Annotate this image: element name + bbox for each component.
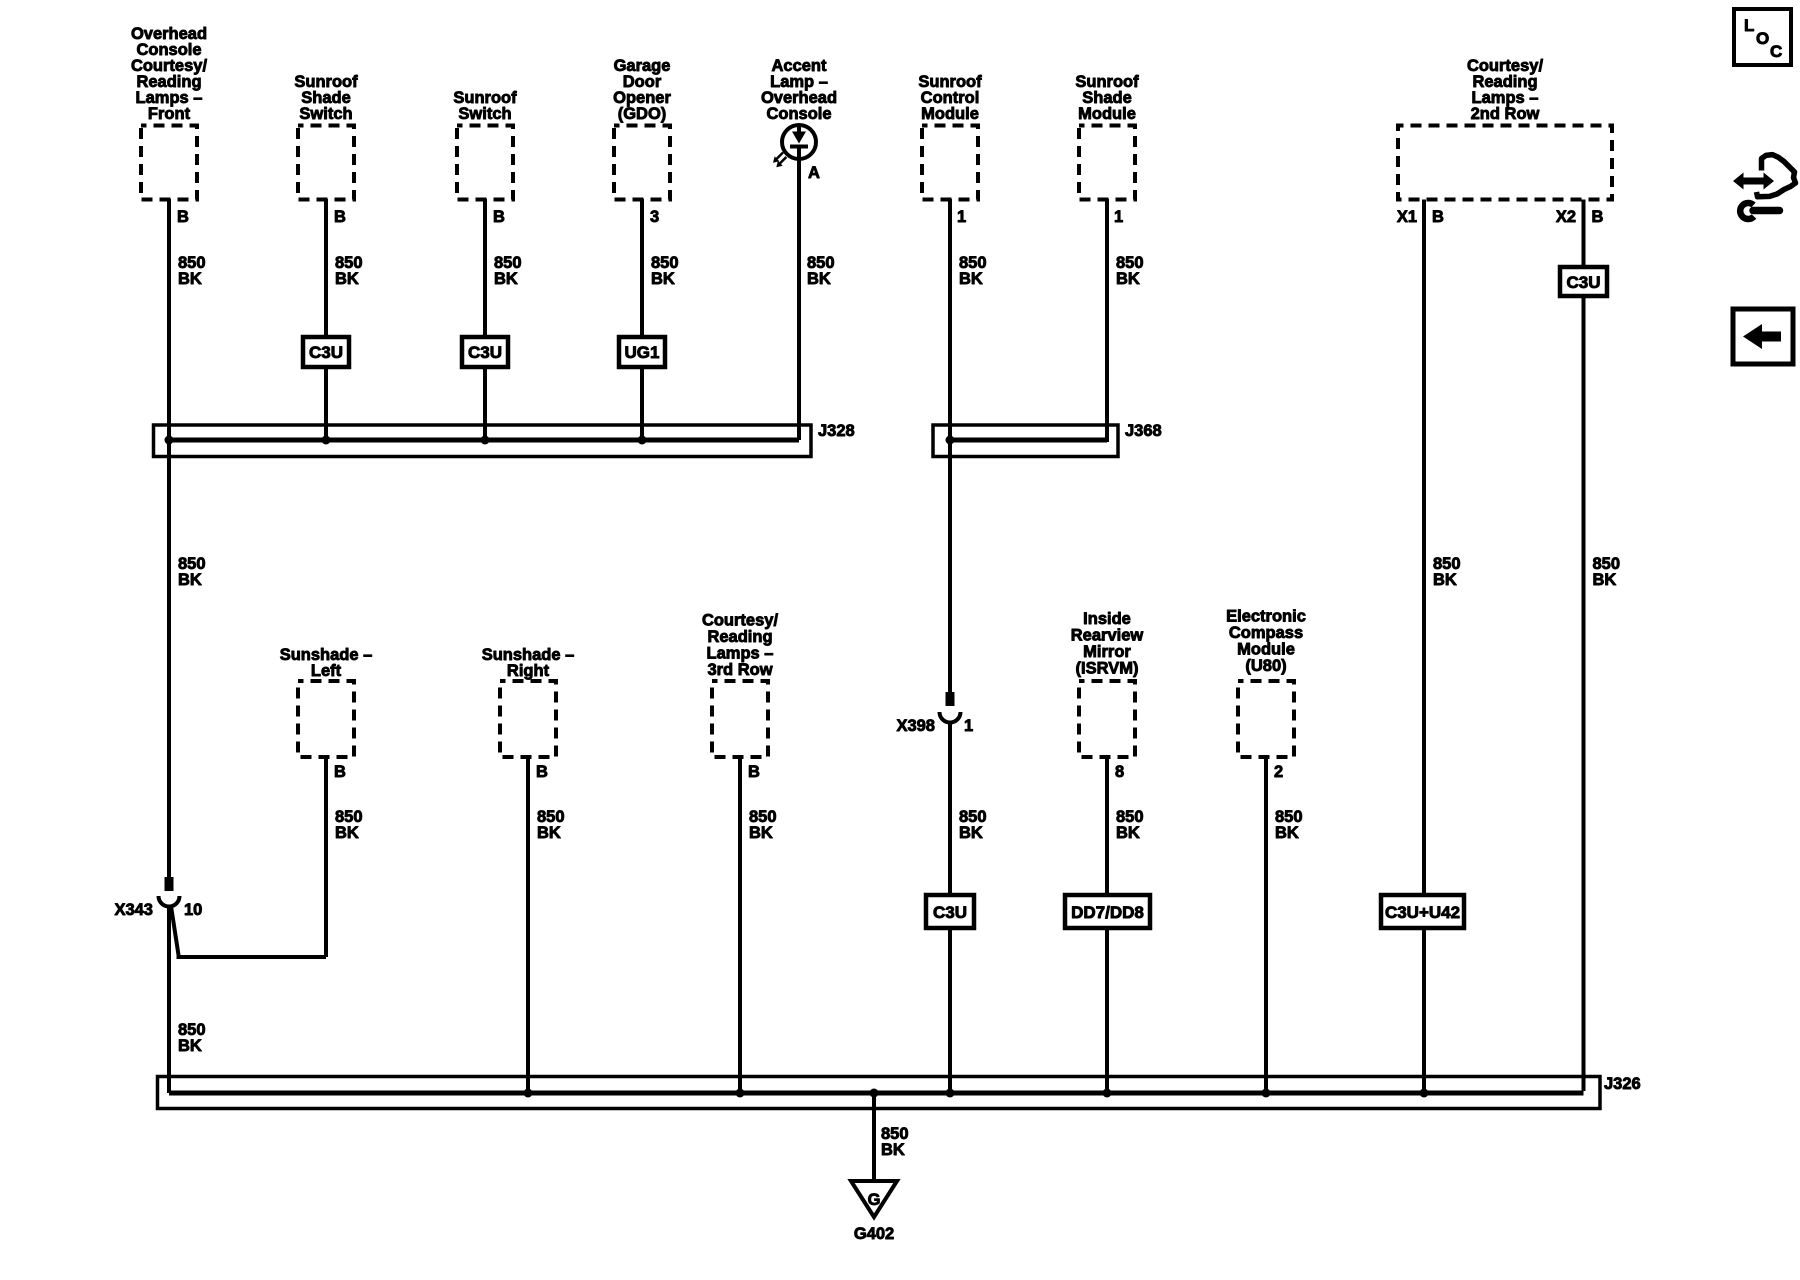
inline connector C3U (sunroof shade switch wire) <box>303 337 349 367</box>
svg-text:B: B <box>1592 208 1604 226</box>
junction node on J326 (sunroof control module wire) <box>946 1089 955 1098</box>
svg-text:Left: Left <box>311 662 342 680</box>
svg-text:Front: Front <box>148 105 191 123</box>
legend icon LOC box <box>1734 9 1791 65</box>
svg-text:O: O <box>1756 29 1769 48</box>
junction node on J368 (sunroof control module wire) <box>946 436 955 445</box>
svg-text:BK: BK <box>1593 571 1617 589</box>
svg-text:C3U: C3U <box>468 343 502 362</box>
splice pack J368 outline <box>933 425 1118 457</box>
junction node on J328 (overhead console wire) <box>165 436 174 445</box>
svg-text:3rd Row: 3rd Row <box>707 661 772 679</box>
wire 850 BK from ISRVM to DD7/DD8 connector <box>1105 757 1109 895</box>
junction node on J326 (sunshade right wire) <box>524 1089 533 1098</box>
wire label 850 BK (X2 wire) <box>1593 555 1621 589</box>
svg-text:2: 2 <box>1274 763 1283 781</box>
svg-text:BK: BK <box>494 270 518 288</box>
svg-text:B: B <box>536 763 548 781</box>
wire from C3U down to J326 <box>948 928 952 1091</box>
inline connector X343 pin 10 <box>159 877 180 906</box>
wire label 850 BK <box>749 808 777 842</box>
svg-text:Module: Module <box>1078 105 1136 123</box>
wire 850 BK from 2nd row X1 down to C3U+U42 and J326 <box>1422 200 1426 896</box>
svg-text:(ISRVM): (ISRVM) <box>1076 660 1139 678</box>
wire 850 BK from Sunroof Control Module through J368 down to X398 <box>948 199 952 692</box>
junction node on J326 (ISRVM wire) <box>1103 1089 1112 1098</box>
svg-text:(U80): (U80) <box>1245 657 1286 675</box>
svg-text:Console: Console <box>766 105 831 123</box>
svg-text:Module: Module <box>1237 641 1295 659</box>
wire 850 BK from GDO to J328 <box>640 199 644 337</box>
junction node on J328 (GDO wire) <box>638 436 647 445</box>
svg-text:1: 1 <box>964 717 973 735</box>
svg-text:L: L <box>1744 16 1754 35</box>
inline connector C3U (sunroof switch wire) <box>462 337 508 367</box>
wire label 850 BK <box>1116 254 1144 288</box>
svg-text:Courtesy/: Courtesy/ <box>702 612 779 630</box>
svg-text:BK: BK <box>881 1141 905 1159</box>
splice pack J368 bus bar <box>950 438 1107 443</box>
wire from X343 down to J326 <box>167 905 171 1093</box>
svg-text:BK: BK <box>1116 824 1140 842</box>
svg-text:BK: BK <box>537 824 561 842</box>
svg-text:G402: G402 <box>854 1225 894 1243</box>
wire label 850 BK <box>494 254 522 288</box>
svg-text:10: 10 <box>184 901 202 919</box>
wire 850 BK from Sunroof Shade Module into J368 <box>1105 199 1109 442</box>
wire 850 BK from Overhead Console pin B to J328 and down to X343 <box>167 199 171 877</box>
svg-text:B: B <box>493 208 505 226</box>
svg-text:A: A <box>808 164 820 182</box>
component Courtesy/Reading Lamps - 2nd Row <box>1398 57 1612 200</box>
svg-text:2nd Row: 2nd Row <box>1471 105 1540 123</box>
svg-text:1: 1 <box>957 208 966 226</box>
wire label 850 BK (above J326) <box>178 1021 206 1055</box>
inline connector X398 pin 1 <box>940 692 961 723</box>
svg-text:J328: J328 <box>818 422 855 440</box>
svg-text:B: B <box>334 763 346 781</box>
component Sunroof Switch <box>453 89 517 200</box>
junction node on J326 (ground lead) <box>870 1089 879 1098</box>
component Electronic Compass Module (U80) <box>1226 608 1306 758</box>
wire 850 BK from Sunroof Shade Switch to J328 <box>324 199 328 337</box>
svg-text:Reading: Reading <box>707 628 772 646</box>
svg-text:1: 1 <box>1114 208 1123 226</box>
svg-text:X1: X1 <box>1397 208 1417 226</box>
junction node on J328 (sunroof shade switch wire) <box>322 436 331 445</box>
component Overhead Console Courtesy/Reading Lamps - Front <box>131 25 208 200</box>
component Sunroof Control Module <box>918 73 982 200</box>
svg-text:Electronic: Electronic <box>1226 608 1306 626</box>
svg-text:B: B <box>177 208 189 226</box>
svg-text:Rearview: Rearview <box>1071 627 1144 645</box>
wire label 850 BK <box>959 254 987 288</box>
svg-text:DD7/DD8: DD7/DD8 <box>1071 903 1144 922</box>
svg-text:C3U: C3U <box>309 343 343 362</box>
component Sunshade - Left <box>280 646 373 757</box>
svg-text:X2: X2 <box>1556 208 1576 226</box>
wire label 850 BK <box>537 808 565 842</box>
wire label 850 BK (X1 wire) <box>1433 555 1461 589</box>
component Courtesy/Reading Lamps - 3rd Row <box>702 612 779 758</box>
inline connector C3U (sunroof control module wire) <box>926 895 974 928</box>
svg-text:J368: J368 <box>1125 422 1162 440</box>
splice pack J328 bus bar <box>169 438 799 443</box>
svg-text:Compass: Compass <box>1229 624 1303 642</box>
splice pack J326 bus bar <box>169 1091 1584 1096</box>
svg-text:BK: BK <box>335 824 359 842</box>
junction node on J326 (2nd row X1 wire) <box>1420 1089 1429 1098</box>
wire label 850 BK <box>335 808 363 842</box>
svg-text:BK: BK <box>178 270 202 288</box>
svg-text:UG1: UG1 <box>625 343 660 362</box>
svg-text:B: B <box>1432 208 1444 226</box>
svg-text:8: 8 <box>1115 763 1124 781</box>
wire from DD7/DD8 down to J326 <box>1105 928 1109 1091</box>
junction node on J328 (sunroof switch wire) <box>481 436 490 445</box>
component Sunshade - Right <box>482 646 575 757</box>
svg-text:BK: BK <box>1275 824 1299 842</box>
svg-text:BK: BK <box>959 270 983 288</box>
wire 850 BK from 3rd row lamps to J326 <box>738 757 742 1091</box>
junction node on J326 (compass module wire) <box>1262 1089 1271 1098</box>
wire 850 BK from Compass Module to J326 <box>1264 757 1268 1091</box>
wire 850 BK from Sunshade Right to J326 <box>526 757 530 1091</box>
icon back arrow box <box>1733 309 1793 364</box>
inline connector C3U+U42 (2nd row X1 wire) <box>1381 895 1464 928</box>
wire label 850 BK <box>1116 808 1144 842</box>
svg-text:C3U: C3U <box>933 903 967 922</box>
svg-text:Lamps –: Lamps – <box>707 645 774 663</box>
ground symbol G402 <box>851 1181 897 1217</box>
svg-text:BK: BK <box>1433 571 1457 589</box>
splice pack J326 outline <box>158 1077 1601 1109</box>
inline connector UG1 (GDO wire) <box>619 337 665 367</box>
component Accent Lamp - Overhead Console (LED lamp symbol) <box>761 57 837 159</box>
junction node on J326 (3rd row lamps wire) <box>736 1089 745 1098</box>
wire label 850 BK <box>959 808 987 842</box>
wire 850 BK from Sunroof Switch to J328 <box>483 199 487 337</box>
svg-text:X343: X343 <box>114 901 153 919</box>
component Inside Rearview Mirror (ISRVM) <box>1071 610 1144 757</box>
wire label 850 BK <box>807 254 835 288</box>
svg-text:BK: BK <box>651 270 675 288</box>
wire 850 BK from X398 to C3U connector <box>948 721 952 895</box>
svg-text:X398: X398 <box>896 717 935 735</box>
svg-text:(GDO): (GDO) <box>618 105 667 123</box>
wire label 850 BK (ground lead) <box>881 1125 909 1159</box>
svg-text:Inside: Inside <box>1083 610 1131 628</box>
svg-text:B: B <box>334 208 346 226</box>
svg-text:BK: BK <box>335 270 359 288</box>
svg-text:Right: Right <box>507 662 550 680</box>
wire label 850 BK (below J328) <box>178 555 206 589</box>
splice pack J328 outline <box>154 425 812 457</box>
svg-text:G: G <box>868 1191 881 1209</box>
svg-text:3: 3 <box>650 208 659 226</box>
pin X2 B of 2nd row lamps <box>1556 208 1604 226</box>
wire label 850 BK <box>1275 808 1303 842</box>
svg-text:BK: BK <box>749 824 773 842</box>
svg-text:Module: Module <box>921 105 979 123</box>
svg-text:C: C <box>1770 42 1782 61</box>
component Sunroof Shade Module <box>1075 73 1139 200</box>
wire branch from X343 to Sunshade Left <box>171 906 326 957</box>
wire label 850 BK <box>178 254 206 288</box>
svg-text:BK: BK <box>178 571 202 589</box>
svg-text:J326: J326 <box>1604 1075 1641 1093</box>
svg-text:BK: BK <box>1116 270 1140 288</box>
wire label 850 BK <box>651 254 679 288</box>
wire 850 BK from Sunshade Left down to X343 branch <box>324 757 328 957</box>
wire 850 BK from 2nd row X2 down through C3U to J326 <box>1582 200 1586 268</box>
svg-text:Switch: Switch <box>458 105 511 123</box>
component Garage Door Opener (GDO) <box>613 57 671 200</box>
ground lead 850 BK from J326 to G402 <box>872 1093 876 1181</box>
svg-text:Mirror: Mirror <box>1083 643 1131 661</box>
svg-text:C3U: C3U <box>1566 273 1600 292</box>
pin X1 B of 2nd row lamps <box>1397 208 1444 226</box>
svg-text:Switch: Switch <box>299 105 352 123</box>
svg-text:BK: BK <box>178 1037 202 1055</box>
svg-text:BK: BK <box>959 824 983 842</box>
wire label 850 BK <box>335 254 363 288</box>
wire 850 BK from Accent Lamp down into J328 <box>797 146 801 440</box>
inline connector C3U (2nd row X2 wire) <box>1560 267 1607 296</box>
svg-text:BK: BK <box>807 270 831 288</box>
inline connector DD7/DD8 (ISRVM wire) <box>1065 895 1150 928</box>
lamp light rays <box>773 153 786 168</box>
component Sunroof Shade Switch <box>294 73 358 200</box>
svg-text:C3U+U42: C3U+U42 <box>1385 903 1460 922</box>
icon connector repair (double arrow with wrench) <box>1733 155 1796 219</box>
svg-text:B: B <box>748 763 760 781</box>
